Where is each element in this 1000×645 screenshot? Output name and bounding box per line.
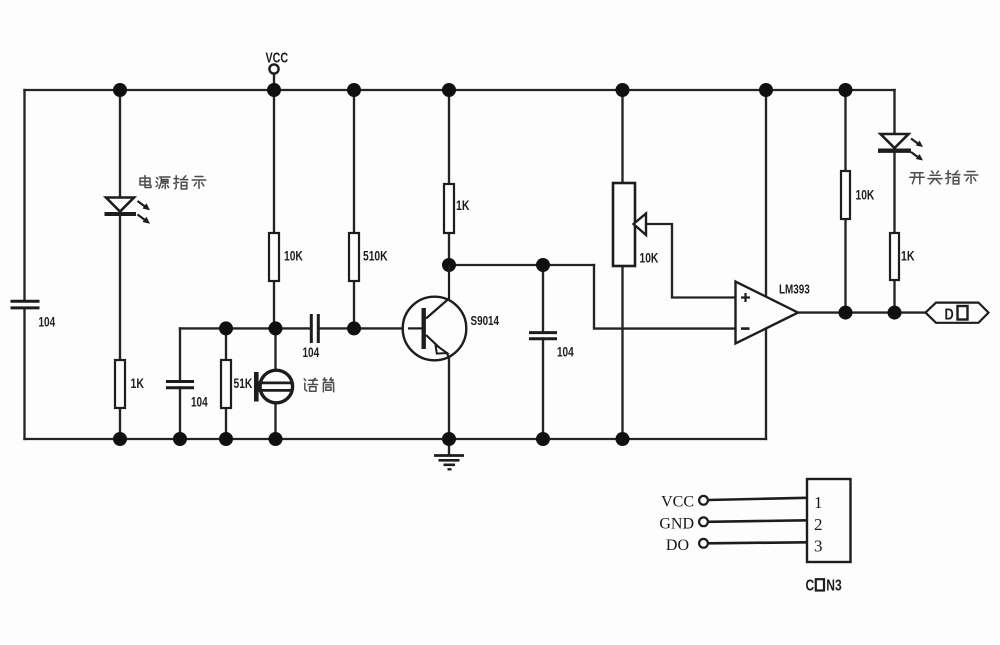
- label 话筒 (microphone, CJK drawn as paths): [304, 378, 333, 392]
- wire LED2 cathode to R8 1K: [893, 153, 895, 233]
- label 开关指示 (switch indicator, CJK drawn as paths): [910, 171, 978, 184]
- wire mic lower lead: [274, 403, 276, 439]
- CON3 pin 1 circle: [699, 496, 708, 505]
- svg-text:104: 104: [557, 344, 574, 360]
- svg-text:10K: 10K: [284, 248, 303, 264]
- svg-text:10K: 10K: [856, 187, 875, 203]
- wire LED1 branch: rail to LED anode: [119, 90, 121, 197]
- wire R3 10K top (rail to resistor): [273, 90, 275, 233]
- op-amp U1 LM393: [736, 282, 799, 344]
- wire R8 1K bottom to output node: [893, 280, 895, 313]
- wire op-amp output row: [798, 311, 926, 313]
- svg-text:3: 3: [814, 537, 823, 556]
- node: junction dots on collector row: [442, 258, 550, 272]
- connector CON3 box: [807, 479, 851, 562]
- wire R6 51K upper lead: [225, 328, 227, 360]
- svg-text:104: 104: [191, 394, 208, 410]
- wire CON3 pin 1: [708, 498, 807, 500]
- wire right vertical (rail to bottom rail, behind op-amp): [765, 90, 767, 439]
- CON3 pin 2 circle: [699, 517, 708, 526]
- wire LED1 cathode to R2 1K: [119, 216, 121, 360]
- capacitor C1 104 (left edge): [11, 301, 40, 308]
- node: VCC terminal circle: [269, 64, 278, 73]
- capacitor C3 104 (series coupling): [311, 314, 318, 343]
- svg-text:104: 104: [39, 314, 56, 330]
- capacitor C4 104 (collector filter): [529, 333, 557, 339]
- microphone MIC 话筒: [254, 370, 293, 403]
- wire base signal row left segment (corner at x180 to series cap): [180, 327, 311, 329]
- wire R6 51K lower lead: [225, 408, 227, 439]
- wire base signal row right segment (series cap to transistor base): [319, 327, 423, 329]
- potentiometer RP1 10K body: [613, 183, 635, 266]
- wire pot wiper to plus input: [646, 224, 736, 298]
- node: junction dots on base signal row: [219, 321, 361, 335]
- capacitor C2 104 (mic filter): [166, 382, 194, 388]
- wire pot branch: rail to pot top: [621, 90, 623, 183]
- wire CON3 pin 2: [708, 520, 807, 522]
- wire CON3 pin 3: [708, 542, 807, 543]
- resistor R6 51K: [221, 360, 231, 408]
- wire C4 104 lower lead: [542, 339, 544, 440]
- wire R7 10K right: rail to resistor: [844, 90, 846, 171]
- svg-text:VCC: VCC: [266, 49, 289, 66]
- svg-text:LM393: LM393: [779, 283, 810, 297]
- svg-text:C: C: [806, 576, 815, 594]
- wire R7 10K right bottom to output node: [844, 219, 846, 313]
- svg-text:VCC: VCC: [661, 494, 694, 511]
- wire C2 104 branch vertical (corner down to bottom rail): [179, 328, 181, 381]
- wire left edge upper (rail to cap C1): [23, 90, 25, 301]
- DO output tag: [926, 303, 989, 324]
- LED D2 switch indicator: [878, 134, 923, 161]
- wire ground stub: [448, 439, 450, 455]
- CON3 pin 3 circle: [699, 539, 708, 548]
- wire R5 1K top (rail to resistor): [448, 90, 450, 184]
- wire collector to minus-input drop: [594, 265, 736, 329]
- node: junction dots on output row: [839, 306, 902, 320]
- svg-text:2: 2: [814, 515, 823, 534]
- wire collector node row: [449, 264, 594, 266]
- svg-text:10K: 10K: [640, 250, 659, 266]
- node: junction dots on top rail: [113, 83, 853, 97]
- wire top rail: [25, 89, 895, 91]
- svg-text:DO: DO: [666, 537, 689, 554]
- svg-text:D: D: [945, 306, 954, 324]
- label 电源指示 (power indicator, CJK drawn as paths): [140, 176, 206, 190]
- ground symbol: [434, 456, 464, 470]
- svg-text:S9014: S9014: [471, 315, 500, 329]
- resistor R8 1K (right): [890, 233, 899, 280]
- wire R5 1K bottom to collector node: [448, 233, 450, 265]
- resistor R4 510K: [349, 233, 359, 281]
- wire transistor emitter to ground: [448, 357, 450, 439]
- svg-text:510K: 510K: [363, 248, 388, 264]
- wire R3 10K bottom to base node row: [273, 281, 275, 328]
- wire LED2 branch: rail corner down to LED anode: [893, 90, 895, 134]
- wire R2 1K to bottom rail: [119, 408, 121, 439]
- wire mic upper lead: [274, 328, 276, 370]
- wire R4 510K bottom to base node row: [353, 281, 355, 328]
- resistor R5 1K (collector): [444, 184, 454, 233]
- wire C4 104 upper lead: [542, 265, 544, 333]
- svg-text:1K: 1K: [456, 198, 470, 214]
- wire R4 510K top (rail to resistor): [353, 90, 355, 233]
- wire pot bottom to bottom rail: [621, 266, 623, 439]
- svg-text:1: 1: [814, 493, 823, 512]
- resistor R2 1K (left): [115, 360, 125, 408]
- RP1 wiper arrow: [634, 214, 647, 236]
- wire left edge lower (cap C1 to bottom rail): [23, 308, 25, 439]
- CON3 name label: [806, 576, 842, 594]
- svg-text:51K: 51K: [234, 376, 253, 392]
- wire bottom rail (ground net): [25, 438, 767, 440]
- resistor R3 10K: [269, 233, 279, 281]
- resistor R7 10K (right): [841, 171, 850, 219]
- svg-text:1K: 1K: [131, 376, 145, 392]
- svg-text:GND: GND: [659, 516, 694, 533]
- wire C2 104 lower lead: [179, 388, 181, 440]
- wire VCC stub: [273, 74, 275, 90]
- svg-text:104: 104: [303, 344, 320, 360]
- transistor Q1 S9014: [403, 265, 467, 360]
- svg-text:N3: N3: [826, 576, 842, 594]
- svg-text:1K: 1K: [901, 248, 915, 264]
- node: junction dots on bottom rail: [113, 432, 630, 446]
- LED D1 power indicator: [105, 198, 151, 224]
